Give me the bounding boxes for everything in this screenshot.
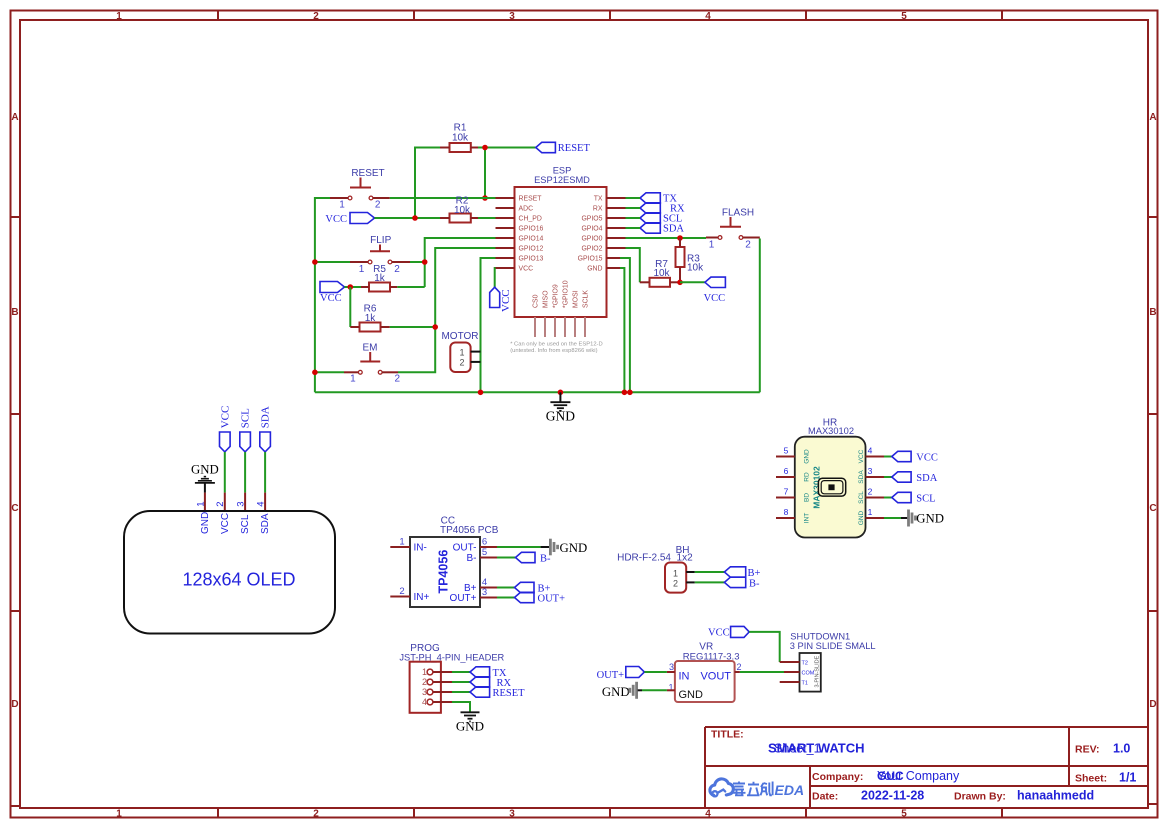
svg-text:INT: INT xyxy=(804,513,811,524)
svg-text:3-PIN-SLIDE: 3-PIN-SLIDE xyxy=(814,655,820,687)
wire OUT+ to flag xyxy=(497,597,515,599)
ground symbol TP4056 OUT- xyxy=(541,539,588,556)
svg-text:SCL: SCL xyxy=(240,514,251,534)
border column ticks top xyxy=(218,11,1002,21)
MAX30102 sensor window xyxy=(818,478,845,496)
svg-text:4: 4 xyxy=(422,697,427,707)
net flag SDA xyxy=(640,223,684,235)
net flag RESET xyxy=(536,142,591,154)
svg-text:OUT-: OUT- xyxy=(453,543,477,554)
svg-text:CH_PD: CH_PD xyxy=(519,216,542,223)
charger CC TP4056 labels xyxy=(440,516,499,536)
svg-text:2: 2 xyxy=(313,809,319,820)
svg-text:VCC: VCC xyxy=(704,293,726,304)
switch SHUTDOWN1 body xyxy=(800,653,821,692)
junction R7 R3 VCC xyxy=(677,280,683,286)
wire SCL to oled pin3 xyxy=(244,452,246,493)
svg-text:VCC: VCC xyxy=(325,214,347,225)
ESP right pin stubs xyxy=(607,198,626,268)
svg-text:RESET: RESET xyxy=(558,143,591,154)
ground symbol oled GND xyxy=(191,462,219,492)
svg-text:2: 2 xyxy=(673,579,678,589)
title block TITLE label xyxy=(711,729,744,741)
svg-text:BD: BD xyxy=(804,493,811,502)
svg-text:IN-: IN- xyxy=(414,543,427,554)
wire R1 junction down to reset row xyxy=(484,148,486,199)
wire R1 left xyxy=(415,148,440,219)
svg-text:10k: 10k xyxy=(653,268,670,279)
wire GPIO14 vertical xyxy=(425,238,496,287)
svg-text:5: 5 xyxy=(482,547,487,558)
svg-text:2: 2 xyxy=(375,199,381,210)
wire R5 to GPIO14 vertical xyxy=(397,286,424,288)
svg-text:GND: GND xyxy=(858,510,865,525)
svg-text:3: 3 xyxy=(868,466,873,476)
svg-text:2: 2 xyxy=(736,662,741,672)
svg-text:MOSI: MOSI xyxy=(573,290,580,308)
svg-text:IN: IN xyxy=(679,671,690,683)
wire R6 to GPIO12 vertical xyxy=(390,326,435,328)
svg-text:5: 5 xyxy=(784,446,789,456)
svg-text:TP4056 PCB: TP4056 PCB xyxy=(440,525,499,536)
Sheet label xyxy=(1075,773,1107,785)
border column ticks bottom xyxy=(218,808,1002,818)
oled pin names xyxy=(200,512,271,534)
svg-text:D: D xyxy=(11,699,18,710)
net flag SDA max xyxy=(892,472,938,484)
Sheet value 1/1 xyxy=(1119,771,1136,785)
ESP left pin names xyxy=(519,196,544,273)
svg-text:1/1: 1/1 xyxy=(1119,771,1136,785)
svg-text:2022-11-28: 2022-11-28 xyxy=(861,789,924,803)
svg-text:* Can only be used on the ESP1: * Can only be used on the ESP12-D xyxy=(510,342,603,348)
ESP note text xyxy=(510,342,603,354)
svg-text:128x64 OLED: 128x64 OLED xyxy=(182,570,295,590)
svg-text:1: 1 xyxy=(116,11,122,22)
svg-text:GND: GND xyxy=(191,462,219,476)
oled 128x64 body xyxy=(124,511,335,634)
svg-text:RD: RD xyxy=(804,472,811,482)
wire ESP GND down to rail xyxy=(620,268,624,392)
svg-text:2: 2 xyxy=(868,487,873,497)
svg-text:GPIO14: GPIO14 xyxy=(519,236,544,243)
wire GPIO13 down past motor xyxy=(481,258,496,392)
svg-text:RX: RX xyxy=(593,206,603,213)
logo JLCEDA cloud icon xyxy=(710,779,733,797)
wire BH pin1 xyxy=(695,571,725,573)
svg-text:GPIO5: GPIO5 xyxy=(581,216,602,223)
svg-text:GND: GND xyxy=(916,511,944,525)
svg-text:1: 1 xyxy=(673,568,678,578)
svg-text:ESP12ESMD: ESP12ESMD xyxy=(534,175,590,185)
wire max scl xyxy=(884,497,892,499)
svg-text:2: 2 xyxy=(422,677,427,687)
svg-text:6: 6 xyxy=(482,536,487,547)
net flag TX prog xyxy=(470,667,507,679)
svg-text:GND: GND xyxy=(804,449,811,464)
svg-text:D: D xyxy=(1149,699,1156,710)
net flag OUT+ vr xyxy=(597,667,645,682)
wire FLASH pin2 down to rail xyxy=(759,239,761,393)
svg-text:OUT+: OUT+ xyxy=(538,594,566,605)
svg-text:OUT+: OUT+ xyxy=(597,670,625,681)
pushbutton FLASH xyxy=(706,207,760,250)
svg-text:B+: B+ xyxy=(748,568,761,579)
border row ticks right xyxy=(1148,217,1158,804)
svg-text:CS0: CS0 xyxy=(533,294,540,308)
net flag RESET prog xyxy=(470,687,525,699)
svg-text:GPIO4: GPIO4 xyxy=(581,226,602,233)
wire max vcc xyxy=(884,456,892,458)
resistor R2 xyxy=(440,196,478,223)
svg-text:Sheet_1: Sheet_1 xyxy=(774,742,821,756)
svg-text:1: 1 xyxy=(399,536,404,547)
junction R6 GPIO12 xyxy=(432,324,438,330)
svg-text:GPIO0: GPIO0 xyxy=(581,236,602,243)
svg-text:SCL: SCL xyxy=(240,408,252,428)
wire R1 right to RESET flag xyxy=(478,147,536,149)
Date value xyxy=(861,789,924,803)
svg-text:1: 1 xyxy=(868,507,873,517)
net flag SCL oled xyxy=(240,408,252,452)
logo text EDA xyxy=(775,782,805,798)
svg-text:SCL: SCL xyxy=(858,491,865,504)
svg-text:1k: 1k xyxy=(365,313,377,324)
svg-text:TP4056: TP4056 xyxy=(437,550,451,594)
wire B- to flag xyxy=(497,557,516,559)
wire BH pin2 xyxy=(695,581,725,583)
pushbutton EM xyxy=(344,343,401,385)
svg-text:GND: GND xyxy=(587,266,602,273)
svg-text:GND: GND xyxy=(560,541,588,555)
Company label xyxy=(812,771,863,783)
svg-text:SDA: SDA xyxy=(260,406,272,428)
resistor R3 vertical xyxy=(676,238,705,282)
svg-text:VCC: VCC xyxy=(916,452,938,463)
svg-text:3: 3 xyxy=(509,11,515,22)
wire gnd to VR GND xyxy=(642,689,667,691)
PROG pin stubs xyxy=(433,672,452,702)
Date label xyxy=(812,791,838,803)
junction FLIP row vertical xyxy=(422,259,428,265)
SHUTDOWN1 pin stubs xyxy=(780,662,800,682)
svg-text:T1: T1 xyxy=(802,681,808,687)
REV label xyxy=(1075,744,1100,756)
svg-text:7: 7 xyxy=(784,487,789,497)
svg-text:VCC: VCC xyxy=(708,628,730,639)
svg-text:VCC: VCC xyxy=(858,449,865,463)
connector PROG body xyxy=(410,662,441,713)
svg-text:B-: B- xyxy=(467,553,477,564)
svg-text:4: 4 xyxy=(705,809,711,820)
pushbutton FLIP xyxy=(350,235,410,275)
net flag VCC below ESP xyxy=(490,268,512,312)
svg-text:GND: GND xyxy=(456,719,484,734)
svg-text:TX: TX xyxy=(594,196,603,203)
Drawn By value hanaahmedd xyxy=(1017,789,1094,803)
ground symbol VR GND xyxy=(602,682,642,699)
svg-text:1.0: 1.0 xyxy=(1113,742,1130,756)
wire left rail to FLIP xyxy=(315,261,350,263)
wire VCC down to shutdown T2 xyxy=(749,632,780,662)
wire GPIO2 to R7 xyxy=(626,248,640,282)
svg-text:SDA: SDA xyxy=(858,470,865,484)
svg-text:10k: 10k xyxy=(687,263,704,274)
wire RESET button to ESP RESET xyxy=(390,197,496,199)
border column numbers bottom xyxy=(116,809,907,820)
connector MOTOR xyxy=(441,331,480,372)
svg-text:VCC: VCC xyxy=(220,513,231,534)
net flag VCC oled xyxy=(219,406,231,452)
svg-text:3: 3 xyxy=(669,662,674,672)
svg-text:SDA: SDA xyxy=(916,473,937,484)
svg-text:MISO: MISO xyxy=(543,290,550,308)
svg-text:MAX30102: MAX30102 xyxy=(808,426,854,436)
wire prog pin2 RX xyxy=(452,681,470,683)
net flag VCC max xyxy=(892,451,938,463)
junction VCC R5 xyxy=(348,284,354,290)
junction rail gnd xyxy=(558,390,564,396)
svg-text:(untested. Info from esp8266 w: (untested. Info from esp8266 wiki) xyxy=(510,348,597,354)
svg-text:5: 5 xyxy=(901,809,907,820)
svg-text:SDA: SDA xyxy=(260,513,271,534)
svg-text:VCC: VCC xyxy=(500,289,512,312)
svg-text:OUT+: OUT+ xyxy=(450,593,477,604)
svg-text:4: 4 xyxy=(256,502,267,507)
wire R2 to ESP CH_PD xyxy=(478,217,496,219)
svg-text:10k: 10k xyxy=(454,205,471,216)
svg-text:VCC: VCC xyxy=(219,406,231,429)
svg-text:1: 1 xyxy=(116,809,122,820)
svg-text:TITLE:: TITLE: xyxy=(711,729,744,741)
svg-text:1k: 1k xyxy=(374,273,386,284)
pushbutton RESET xyxy=(330,168,390,210)
border column numbers top xyxy=(116,11,907,22)
connector PROG labels xyxy=(399,643,504,662)
svg-text:RESET: RESET xyxy=(493,688,526,699)
sensor HR MAX30102 labels xyxy=(808,418,854,437)
ground symbol main GND xyxy=(546,392,575,423)
net flag B+ tp4056 xyxy=(515,582,551,594)
svg-text:FLASH: FLASH xyxy=(722,207,754,218)
wire TX xyxy=(626,197,641,199)
wire VCC down to R6 xyxy=(349,287,351,327)
border row ticks left xyxy=(11,217,21,806)
svg-text:GND: GND xyxy=(602,685,630,699)
svg-text:ADC: ADC xyxy=(519,206,534,213)
svg-text:2: 2 xyxy=(459,358,464,368)
svg-text:10k: 10k xyxy=(452,133,469,144)
svg-text:3 PIN SLIDE SMALL: 3 PIN SLIDE SMALL xyxy=(790,641,876,651)
svg-text:B-: B- xyxy=(540,553,551,564)
svg-text:Company:: Company: xyxy=(812,771,863,783)
svg-text:GND: GND xyxy=(200,512,211,534)
resistor R6 xyxy=(350,304,390,332)
net flag VCC at R2 row xyxy=(325,213,374,225)
wire prog pin4 to ground xyxy=(452,702,470,712)
wire VCC to oled pin2 xyxy=(224,452,226,493)
svg-text:*GPIO10: *GPIO10 xyxy=(563,280,570,308)
svg-text:GPIO15: GPIO15 xyxy=(578,256,603,263)
svg-text:REV:: REV: xyxy=(1075,744,1100,756)
REV value 1.0 xyxy=(1113,742,1130,756)
Drawn By label xyxy=(954,791,1006,803)
svg-text:B: B xyxy=(11,307,18,318)
svg-text:A: A xyxy=(1149,112,1156,123)
ground symbol MAX GND xyxy=(901,510,944,527)
net flag B+ bh xyxy=(724,567,760,579)
wire OUT+ to VR IN xyxy=(644,671,667,673)
net flag TX xyxy=(640,193,677,205)
junction left rail FLIP row xyxy=(312,259,318,265)
TP4056 pin stubs xyxy=(390,547,497,598)
wire VOUT to shutdown COM xyxy=(740,671,784,673)
ground symbol PROG GND xyxy=(456,712,484,733)
TP4056 pin names xyxy=(414,543,477,605)
MAX30102 pin names teal xyxy=(804,449,865,525)
wire GPIO0 to FLASH xyxy=(626,237,707,239)
svg-text:2: 2 xyxy=(215,502,226,507)
svg-text:EDA: EDA xyxy=(775,782,805,798)
ESP left pin stubs xyxy=(496,198,515,268)
svg-text:GPIO16: GPIO16 xyxy=(519,226,544,233)
title block frame xyxy=(705,727,1148,808)
svg-text:A: A xyxy=(11,112,18,123)
svg-text:3: 3 xyxy=(422,687,427,697)
junction R1 right xyxy=(482,145,488,151)
connector BH body xyxy=(665,563,695,593)
net flag B- xyxy=(516,552,552,564)
svg-text:Sheet:: Sheet: xyxy=(1075,773,1107,785)
ESP right pin names xyxy=(578,196,603,273)
svg-text:MOTOR: MOTOR xyxy=(441,331,478,342)
svg-text:EM: EM xyxy=(363,343,378,354)
wire max gnd xyxy=(884,517,901,519)
Company value GUC overlapping xyxy=(877,769,904,783)
junction left rail EM row xyxy=(312,370,318,376)
wire RX xyxy=(626,207,641,209)
net flag OUT+ tp4056 xyxy=(515,592,566,604)
op-amp U1 ESP12ESMD body xyxy=(515,166,607,318)
wire SCL xyxy=(626,217,641,219)
regulator VR REG1117-3.3 body xyxy=(668,661,741,702)
svg-text:5: 5 xyxy=(901,11,907,22)
resistor R1 xyxy=(440,123,478,153)
svg-text:B-: B- xyxy=(749,578,760,589)
svg-text:2: 2 xyxy=(395,373,401,384)
junction rail gpio15 xyxy=(627,390,633,396)
wire GPIO15 down to rail xyxy=(620,258,630,392)
wire VCC to R5 xyxy=(345,286,362,288)
junction GPIO0 R3 xyxy=(677,235,683,241)
svg-text:1: 1 xyxy=(709,239,715,250)
wire B+ to flag xyxy=(497,587,515,589)
svg-text:GPIO2: GPIO2 xyxy=(581,246,602,253)
connector BH labels xyxy=(617,545,693,564)
switch SHUTDOWN1 labels xyxy=(790,632,876,652)
wire GPIO12 vertical to EM xyxy=(398,248,496,372)
svg-text:1: 1 xyxy=(422,667,427,677)
MAX30102 left pin stubs xyxy=(776,457,795,519)
svg-text:SCLK: SCLK xyxy=(583,290,590,308)
border row letters left xyxy=(11,112,18,710)
wire left rail to RESET button xyxy=(315,198,330,392)
junction rail esp gnd xyxy=(622,390,628,396)
svg-text:GUC: GUC xyxy=(877,769,904,783)
svg-text:C: C xyxy=(1149,503,1156,514)
svg-text:2: 2 xyxy=(394,264,400,275)
svg-text:1: 1 xyxy=(359,264,365,275)
svg-text:hanaahmedd: hanaahmedd xyxy=(1017,789,1094,803)
svg-text:GPIO13: GPIO13 xyxy=(519,256,544,263)
svg-text:COM: COM xyxy=(802,671,815,677)
svg-text:3: 3 xyxy=(236,502,247,507)
MAX30102 right pin stubs xyxy=(866,457,885,519)
title text SMART WATCH xyxy=(768,741,865,756)
ESP bottom pin stubs xyxy=(535,317,585,337)
ESP bottom pin names xyxy=(533,280,590,308)
wire SDA to oled pin4 xyxy=(264,452,266,493)
wire OUT- to gnd xyxy=(497,546,541,548)
svg-text:GND: GND xyxy=(546,408,575,423)
oled pin numbers xyxy=(195,502,266,507)
svg-text:2: 2 xyxy=(745,239,751,250)
resistor R7 xyxy=(640,259,680,287)
net flag RX prog xyxy=(470,677,512,689)
svg-text:6: 6 xyxy=(784,466,789,476)
wire prog pin1 TX xyxy=(452,671,470,673)
net flag SCL max xyxy=(892,492,936,504)
svg-text:RESET: RESET xyxy=(519,196,543,203)
net flag VCC at R3 xyxy=(704,277,726,304)
svg-text:VCC: VCC xyxy=(320,293,342,304)
svg-text:Date:: Date: xyxy=(812,791,838,803)
wire VCC to R2 xyxy=(375,217,441,219)
svg-text:*GPIO9: *GPIO9 xyxy=(553,284,560,308)
net flag SCL xyxy=(640,213,682,225)
svg-text:ESP: ESP xyxy=(553,166,572,176)
net flag VCC at R5 xyxy=(320,282,345,304)
svg-text:1: 1 xyxy=(339,199,345,210)
svg-text:VOUT: VOUT xyxy=(700,671,731,683)
junction reset row xyxy=(482,195,488,201)
svg-text:4: 4 xyxy=(868,446,873,456)
wire left rail to EM xyxy=(315,371,344,373)
svg-text:T2: T2 xyxy=(802,661,808,667)
net flag SDA oled xyxy=(260,406,272,452)
svg-text:2: 2 xyxy=(313,11,319,22)
title text Sheet_1 overlapping xyxy=(774,742,821,756)
svg-text:2: 2 xyxy=(399,586,404,597)
border row letters right xyxy=(1149,112,1156,710)
logo text jia li chuang EDA xyxy=(733,782,773,796)
TP4056 pin numbers xyxy=(399,536,487,598)
svg-text:SCL: SCL xyxy=(916,493,935,504)
wire prog pin3 RESET xyxy=(452,691,470,693)
svg-text:IN+: IN+ xyxy=(414,592,430,603)
svg-text:8: 8 xyxy=(784,507,789,517)
junction rail motor xyxy=(478,390,484,396)
svg-text:SDA: SDA xyxy=(663,223,684,234)
wire FLIP pin2 to vertical xyxy=(410,261,425,263)
svg-text:4: 4 xyxy=(705,11,711,22)
svg-text:1: 1 xyxy=(459,347,464,357)
oled pin stubs xyxy=(205,493,265,511)
svg-text:RESET: RESET xyxy=(351,168,384,179)
svg-text:GND: GND xyxy=(679,689,704,701)
svg-text:Drawn By:: Drawn By: xyxy=(954,791,1006,803)
wire max sda xyxy=(884,476,892,478)
